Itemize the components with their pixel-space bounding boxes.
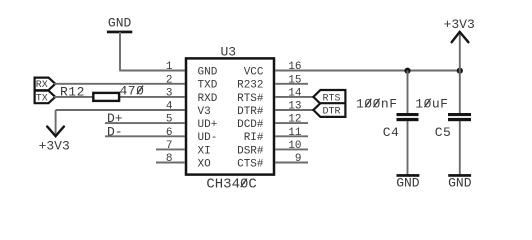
pin 7 XI stub/number/name bbox=[156, 140, 211, 157]
power symbol GND (top left) bbox=[107, 16, 132, 34]
capacitor C5 plates bbox=[448, 113, 471, 121]
wire VCC net to C4 top bbox=[407, 71, 409, 114]
power symbol GND (below C4) bbox=[396, 174, 420, 191]
svg-text:4: 4 bbox=[166, 101, 173, 113]
svg-text:R12: R12 bbox=[60, 84, 85, 99]
pin 1 GND stub/number/name bbox=[166, 61, 218, 78]
svg-text:100nF: 100nF bbox=[356, 96, 398, 111]
power symbol +3V3 (up arrow) bbox=[444, 17, 475, 42]
wire C5 bottom to GND bbox=[459, 121, 461, 175]
svg-text:11: 11 bbox=[288, 127, 302, 139]
svg-text:GND: GND bbox=[108, 16, 132, 31]
wire TX to R12 and pin 3 bbox=[54, 96, 185, 98]
svg-text:XO: XO bbox=[198, 158, 212, 170]
svg-text:UD+: UD+ bbox=[198, 119, 218, 131]
resistor R12 body bbox=[93, 93, 119, 101]
pin 12 DCD# stub/number/name bbox=[237, 114, 308, 131]
pin 6 UD- stub/number/name bbox=[166, 127, 217, 144]
svg-text:10: 10 bbox=[288, 140, 301, 152]
pin 9 CTS# stub/number/name bbox=[237, 153, 308, 170]
pin 16 VCC stub/number/name bbox=[244, 61, 302, 78]
net flag RX bbox=[35, 78, 56, 92]
pin 3 RXD stub/number/name bbox=[166, 88, 218, 105]
svg-text:2: 2 bbox=[166, 74, 173, 86]
pin 15 R232 stub/number/name bbox=[237, 74, 308, 91]
net flag RTS bbox=[313, 90, 345, 104]
svg-text:14: 14 bbox=[288, 88, 302, 100]
svg-text:10uF: 10uF bbox=[415, 96, 448, 111]
svg-text:GND: GND bbox=[396, 176, 420, 191]
pin 14 RTS# stub/number/name bbox=[237, 88, 313, 105]
wire GND to pin 1 (horizontal) bbox=[119, 70, 185, 72]
svg-text:3: 3 bbox=[166, 88, 173, 100]
svg-text:6: 6 bbox=[166, 127, 173, 139]
svg-text:DTR: DTR bbox=[322, 106, 340, 117]
svg-text:15: 15 bbox=[288, 74, 301, 86]
wire pin 16 VCC net (horizontal) bbox=[275, 70, 460, 72]
svg-text:C5: C5 bbox=[435, 125, 452, 140]
wire VCC net to C5 top bbox=[459, 71, 461, 114]
svg-text:DSR#: DSR# bbox=[237, 145, 264, 157]
svg-text:GND: GND bbox=[198, 66, 218, 78]
wire pin 4 V3 (horizontal) bbox=[56, 109, 185, 111]
wire D+ to pin 5 bbox=[105, 122, 185, 124]
svg-text:5: 5 bbox=[166, 114, 173, 126]
pin 8 XO stub/number/name bbox=[156, 153, 211, 170]
svg-text:CH340C: CH340C bbox=[206, 177, 256, 193]
capacitor C4 refdes bbox=[383, 125, 400, 140]
net flag TX bbox=[35, 91, 56, 105]
svg-text:7: 7 bbox=[166, 140, 173, 152]
wire D- to pin 6 bbox=[105, 135, 185, 137]
svg-text:R232: R232 bbox=[237, 80, 263, 92]
resistor R12 value 470 bbox=[120, 83, 145, 98]
capacitor C4 plates bbox=[397, 113, 419, 121]
svg-text:RX: RX bbox=[36, 80, 48, 91]
svg-text:8: 8 bbox=[166, 153, 173, 165]
wire pin 4 V3 (vertical) bbox=[55, 110, 57, 135]
wire +3V3 to VCC net (vertical) bbox=[459, 33, 461, 71]
svg-text:12: 12 bbox=[288, 114, 301, 126]
svg-text:RI#: RI# bbox=[244, 132, 264, 144]
svg-text:+3V3: +3V3 bbox=[39, 138, 70, 153]
svg-text:GND: GND bbox=[448, 176, 472, 191]
svg-text:470: 470 bbox=[120, 83, 145, 98]
pin 5 UD+ stub/number/name bbox=[166, 114, 217, 131]
svg-text:1: 1 bbox=[166, 61, 173, 73]
svg-text:TX: TX bbox=[36, 93, 48, 104]
power symbol GND (below C5) bbox=[448, 174, 472, 191]
svg-text:CTS#: CTS# bbox=[237, 158, 264, 170]
wire C4 bottom to GND bbox=[407, 121, 409, 175]
op IC U3 body outline bbox=[186, 58, 274, 174]
pin 13 DTR# stub/number/name bbox=[237, 101, 313, 118]
junction node at C5 / +3V3 bbox=[457, 68, 463, 74]
capacitor C5 value 10uF bbox=[415, 96, 448, 111]
svg-text:13: 13 bbox=[288, 101, 301, 113]
pin 10 DSR# stub/number/name bbox=[237, 140, 308, 157]
pin 2 TXD stub/number/name bbox=[166, 74, 218, 91]
svg-text:RTS#: RTS# bbox=[237, 93, 264, 105]
capacitor C5 refdes bbox=[435, 125, 452, 140]
svg-text:DTR#: DTR# bbox=[237, 106, 264, 118]
svg-text:U3: U3 bbox=[220, 45, 236, 60]
svg-text:9: 9 bbox=[295, 153, 302, 165]
svg-text:XI: XI bbox=[198, 145, 211, 157]
svg-text:DCD#: DCD# bbox=[237, 119, 264, 131]
junction node at C4 bbox=[404, 68, 410, 74]
wire GND to pin 1 (vertical) bbox=[119, 32, 121, 71]
wire RX to pin 2 bbox=[54, 83, 185, 85]
power symbol +3V3 (down arrow) bbox=[39, 127, 70, 154]
svg-text:TXD: TXD bbox=[198, 80, 218, 92]
svg-text:+3V3: +3V3 bbox=[444, 17, 475, 32]
IC U3 refdes bbox=[220, 45, 236, 60]
net label D+ bbox=[107, 111, 123, 126]
svg-text:UD-: UD- bbox=[198, 132, 218, 144]
svg-text:V3: V3 bbox=[198, 106, 211, 118]
pin 11 RI# stub/number/name bbox=[244, 127, 308, 144]
svg-text:RXD: RXD bbox=[198, 93, 218, 105]
net flag DTR bbox=[313, 103, 345, 117]
capacitor C4 value 100nF bbox=[356, 96, 398, 111]
net label D- bbox=[107, 124, 123, 139]
svg-text:VCC: VCC bbox=[244, 66, 264, 78]
resistor R12 refdes bbox=[60, 84, 85, 99]
IC U3 value CH340C bbox=[206, 177, 256, 193]
svg-text:C4: C4 bbox=[383, 125, 400, 140]
pin 4 V3 stub/number/name bbox=[166, 101, 211, 118]
